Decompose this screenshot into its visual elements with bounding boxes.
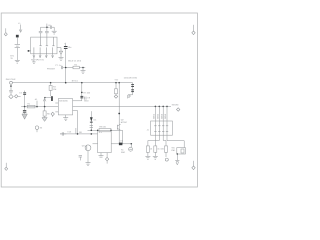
relay internal pins — [34, 37, 55, 54]
svg-text:1N4148 DO35: 1N4148 DO35 — [124, 77, 138, 80]
supply arrow — [43, 98, 46, 106]
transistor Q3 — [82, 144, 91, 162]
rail wire to R9 — [88, 129, 100, 131]
pushbutton S3 — [35, 126, 43, 132]
flag node — [51, 112, 54, 116]
capacitor C3 — [50, 26, 54, 31]
svg-text:SIG2: SIG2 — [157, 113, 160, 119]
diode D3 — [131, 83, 134, 95]
resistor R2 — [73, 66, 79, 69]
svg-text:G5LE-14 DC5: G5LE-14 DC5 — [68, 59, 82, 62]
wire stub up — [46, 24, 48, 28]
ground GND3 — [59, 58, 64, 61]
capacitor C5 — [61, 66, 73, 69]
svg-text:SIG4: SIG4 — [164, 113, 167, 119]
capacitor C9 — [84, 96, 91, 102]
wire jog 3 — [163, 139, 166, 146]
svg-text:GND: GND — [84, 100, 89, 103]
resistor R9 — [99, 125, 111, 131]
wire top of relay — [41, 26, 50, 28]
wire A main rail — [12, 82, 132, 84]
wire down to D5 — [122, 130, 124, 144]
wire — [81, 83, 83, 101]
ground GND2 — [52, 31, 57, 34]
ground flag — [9, 95, 13, 99]
svg-text:PAD PWR: PAD PWR — [6, 78, 16, 81]
net flag left top — [4, 28, 7, 36]
resistor R5 — [114, 83, 118, 99]
wire — [79, 67, 85, 69]
node junction — [118, 113, 120, 115]
ground GND8 — [145, 156, 150, 159]
diode D2 — [51, 96, 53, 101]
svg-text:POWER: POWER — [47, 67, 55, 70]
node junction — [65, 82, 67, 84]
node junction — [81, 92, 83, 94]
node junction — [24, 106, 26, 108]
node junction — [110, 130, 111, 131]
wire B rail — [21, 106, 58, 108]
node tick — [10, 86, 12, 87]
wire jog 1 — [148, 139, 156, 146]
wire — [127, 97, 129, 98]
net flag bottom right — [192, 161, 195, 170]
IC U2 box — [98, 130, 112, 152]
connector wires down — [155, 106, 167, 121]
connector rail junction dots — [155, 106, 157, 108]
U2 right pin wire — [111, 143, 131, 145]
wire stub — [75, 128, 77, 134]
resistor R10 — [146, 146, 153, 156]
capacitor C11 — [23, 107, 26, 114]
pad P1 — [10, 81, 13, 84]
IC U1 box — [58, 99, 72, 115]
node junction — [97, 130, 98, 131]
flag node — [177, 108, 180, 111]
capacitor C14 — [79, 155, 82, 160]
capacitor C6 — [9, 84, 13, 95]
ground GND1 — [15, 60, 20, 63]
node junction — [81, 82, 83, 84]
capacitor C12 — [60, 132, 66, 135]
connector J1 box — [151, 121, 173, 135]
relay K1 box — [31, 37, 57, 54]
capacitor C8 — [80, 96, 83, 98]
pad P4 — [165, 158, 168, 161]
svg-text:R7 10k: R7 10k — [83, 91, 91, 94]
node junction — [131, 143, 133, 145]
capacitor C2 — [45, 27, 49, 37]
rail wire from R9 — [111, 129, 123, 131]
ground GND7 — [86, 163, 91, 166]
dark bar component — [51, 96, 52, 101]
switch S2 box — [177, 148, 186, 161]
node junction — [36, 106, 38, 108]
node junction — [77, 133, 79, 135]
svg-text:SIG3: SIG3 — [160, 113, 163, 119]
wire jog 2 — [155, 139, 159, 146]
capacitor C1 — [39, 27, 43, 37]
U1 left pins — [55, 103, 58, 112]
battery BT1 — [10, 35, 20, 60]
U1 ground pin — [63, 115, 68, 121]
resistor R3 — [49, 83, 57, 97]
transistor Q1 — [90, 111, 98, 130]
diode D1 — [57, 48, 63, 58]
node junction — [82, 67, 84, 69]
node junction — [115, 82, 117, 84]
U2 bottom pins — [99, 153, 109, 164]
node junction — [118, 82, 120, 84]
node junction — [44, 97, 45, 98]
wire C rail — [60, 133, 98, 135]
svg-text:SIG1: SIG1 — [153, 113, 156, 119]
svg-text:RLY-SPDT 5V: RLY-SPDT 5V — [31, 59, 45, 62]
U1 right pins — [73, 101, 82, 111]
resistor R1 — [27, 103, 35, 108]
svg-text:MIC5205: MIC5205 — [59, 99, 68, 102]
wire — [77, 111, 79, 134]
node junction — [91, 133, 93, 135]
svg-text:+5V: +5V — [114, 79, 118, 82]
vertical net name texts — [153, 113, 168, 119]
svg-text:R9 10k: R9 10k — [99, 125, 107, 128]
node junction — [65, 67, 67, 69]
wire — [45, 97, 51, 99]
pad P3 — [121, 144, 133, 154]
wire stub — [36, 101, 38, 107]
resistor R6 — [43, 107, 50, 118]
ground GND5 — [22, 114, 27, 119]
sheet frame — [1, 13, 197, 187]
resistor R11 — [154, 146, 161, 156]
wire — [128, 94, 132, 96]
resistor R12 — [160, 146, 167, 157]
net flag right — [192, 25, 195, 35]
ground GND6 — [42, 118, 47, 122]
capacitor C10 — [19, 91, 26, 107]
svg-text:SENSE: SENSE — [172, 104, 180, 107]
net flag bottom left — [5, 163, 8, 171]
svg-text:BC847: BC847 — [121, 121, 128, 124]
transistor Q2 — [117, 124, 120, 130]
capacitor C4 polarized — [64, 43, 72, 83]
U2 left pin — [93, 143, 98, 145]
svg-text:PAD: PAD — [121, 151, 126, 154]
wire vertical bus — [118, 83, 120, 144]
diode D5 — [119, 143, 123, 146]
wire jog 4 — [167, 139, 184, 148]
ground GND9 — [153, 156, 158, 159]
net flag P1b — [15, 95, 21, 98]
ground arrow — [175, 160, 179, 165]
J1 pins inside — [154, 121, 168, 139]
node junction — [44, 106, 46, 108]
node junction — [46, 26, 48, 28]
ground GND4 — [81, 68, 86, 74]
pad P2 — [128, 95, 130, 97]
relay bottom pins — [32, 54, 53, 63]
supply arrow VCC1 — [18, 22, 22, 32]
svg-text:BTN A: BTN A — [72, 80, 79, 83]
pin 1 — [28, 50, 31, 52]
node junction — [50, 82, 52, 84]
node junction — [91, 130, 93, 132]
